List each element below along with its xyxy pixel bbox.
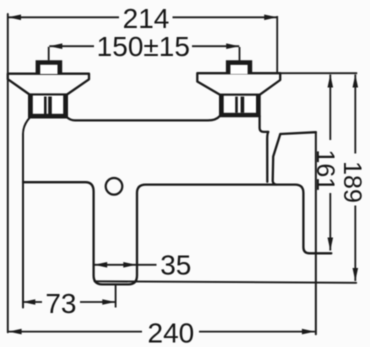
dim 161 line	[329, 75, 331, 251]
dim 150±15 left leader	[48, 47, 50, 61]
arrowhead 73 left	[22, 299, 35, 305]
dim 240 line	[9, 331, 315, 333]
svg-text:161: 161	[311, 149, 339, 191]
dim 189 line	[354, 75, 356, 282]
arrowhead 214 right	[264, 15, 277, 21]
right hex nut	[220, 95, 260, 116]
valve body step below right nut	[260, 116, 269, 132]
handle joint notch left arm	[267, 132, 268, 182]
wire left extension line (left edge of escutcheon, shared by dims 214/240)	[7, 14, 9, 332]
arrowhead 189 top	[353, 75, 359, 88]
dim 73 right extension (spout centerline)	[115, 286, 117, 308]
dim 214 line	[8, 16, 277, 18]
svg-text:240: 240	[148, 318, 195, 347]
arrowhead 35 right	[123, 262, 136, 268]
left hex nut	[29, 95, 67, 118]
arrowhead 35 left	[94, 262, 107, 268]
dim 150±15 line	[49, 45, 239, 47]
arrowhead 214 left	[8, 15, 21, 21]
arrowhead 150 right	[226, 43, 239, 49]
dim 35 line + leader	[94, 264, 156, 266]
right square nut	[226, 60, 252, 74]
arrowhead 161 bottom	[328, 238, 334, 251]
svg-text:150±15: 150±15	[97, 31, 190, 62]
left escutcheon trapezoid	[8, 74, 89, 95]
arrowhead 240 right	[302, 329, 315, 335]
handle joint notch right arm (chamfer)	[273, 134, 281, 185]
svg-text:73: 73	[45, 288, 76, 319]
dim 214 right extension	[276, 16, 278, 72]
right escutcheon trapezoid	[197, 73, 280, 95]
aerator hole circle	[106, 178, 123, 195]
dim 73 line	[22, 301, 115, 303]
spout outlet chord + extension line to dim 189	[95, 281, 357, 283]
handle right edge + extension to dim 240	[315, 132, 317, 334]
dim 150±15 right leader	[239, 47, 241, 60]
svg-text:35: 35	[160, 250, 191, 281]
handle top edge	[280, 132, 316, 134]
svg-text:189: 189	[338, 161, 366, 203]
arrowhead 73 right	[102, 299, 115, 305]
arrowhead 161 top	[328, 75, 334, 88]
arrowhead 240 left	[9, 329, 22, 335]
body top edge between fittings	[67, 116, 220, 120]
body front edge, spout channel, right front edge, handle lever bottom	[23, 182, 331, 284]
top right extension line from escutcheon	[280, 72, 357, 74]
arrowhead 189 bottom	[353, 268, 359, 281]
body left edge	[23, 117, 30, 307]
arrowhead 150 left	[49, 43, 62, 49]
svg-text:214: 214	[123, 3, 170, 34]
left square nut	[36, 60, 63, 74]
